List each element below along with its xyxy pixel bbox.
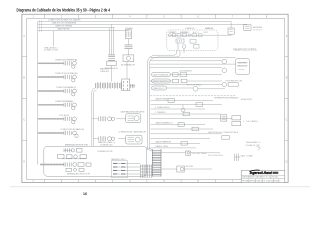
svg-text:CABLE ROJO DE BATERIA: CABLE ROJO DE BATERIA [52, 22, 77, 25]
svg-text:VALV. COMB.: VALV. COMB. [241, 154, 254, 157]
svg-text:CONECTOR LUZ TRAS. (B): CONECTOR LUZ TRAS. (B) [55, 72, 78, 75]
svg-text:TABLERO DE C.: TABLERO DE C. [111, 158, 127, 161]
svg-text:CABLE NARANJA: CABLE NARANJA [153, 74, 170, 77]
svg-text:CABLE ROJO: CABLE ROJO [153, 87, 165, 90]
svg-text:CONECTOR LUZ FRENO (A): CONECTOR LUZ FRENO (A) [55, 58, 77, 61]
svg-text:C: C [286, 119, 288, 122]
svg-text:ZONA B6 (15): ZONA B6 (15) [100, 143, 113, 146]
svg-text:FUSIBLE: FUSIBLE [125, 28, 134, 30]
svg-text:FECHA: FECHA [242, 180, 249, 183]
svg-text:VALVULA DE COMBUSTIBLE: VALVULA DE COMBUSTIBLE [208, 131, 239, 134]
svg-text:D: D [286, 161, 288, 164]
svg-text:L. DE PANEL: L. DE PANEL [243, 120, 259, 123]
svg-text:CABLES: CABLES [100, 70, 110, 73]
svg-text:CONECTOR DEL MAZO (E): CONECTOR DEL MAZO (E) [60, 128, 84, 131]
svg-text:LUZ DE TEMP.: LUZ DE TEMP. [192, 153, 208, 155]
svg-text:MEDIDOR: MEDIDOR [237, 66, 248, 68]
svg-text:ZONA C3 (18): ZONA C3 (18) [246, 144, 260, 147]
svg-text:DIAGRAMA DE CABLEADO 35 / 50: DIAGRAMA DE CABLEADO 35 / 50 [242, 176, 271, 179]
svg-text:Diagrama de Cableado de los Mo: Diagrama de Cableado de los Modelos 35 y… [17, 7, 111, 12]
svg-text:TABLERO (PAG. 1): TABLERO (PAG. 1) [98, 141, 116, 144]
svg-text:N. 35367224: N. 35367224 [264, 181, 274, 183]
svg-text:ARRANQUE: ARRANQUE [105, 67, 119, 70]
svg-text:HOJA 2: HOJA 2 [272, 176, 278, 179]
svg-text:CABLE MARRON: CABLE MARRON [155, 141, 171, 144]
svg-text:C: C [23, 119, 25, 122]
svg-text:CONTACTO: CONTACTO [169, 31, 177, 34]
svg-text:ARRANCADOR MOTOR: ARRANCADOR MOTOR [67, 172, 90, 175]
svg-text:DE ACEITE: DE ACEITE [241, 98, 253, 101]
svg-text:CONECTOR TIERRA (D): CONECTOR TIERRA (D) [55, 100, 73, 103]
svg-text:CONECTOR DEL MAZO DE CABLES: CONECTOR DEL MAZO DE CABLES [48, 19, 81, 22]
svg-text:INTERRUPTOR: INTERRUPTOR [226, 80, 243, 82]
svg-text:CABLE DE TIERRA: CABLE DE TIERRA [55, 25, 73, 28]
svg-text:CONEXION DEL CALENTADOR: CONEXION DEL CALENTADOR [118, 131, 146, 134]
svg-text:APROB: APROB [249, 180, 256, 183]
svg-text:12 VOLT: 12 VOLT [253, 29, 263, 31]
svg-text:L. TERMICO: L. TERMICO [155, 112, 166, 114]
svg-text:CONECTOR SENAL (C): CONECTOR SENAL (C) [56, 86, 77, 89]
svg-text:ZONA C8 (16): ZONA C8 (16) [44, 49, 58, 52]
svg-text:HOROMETRO: HOROMETRO [237, 63, 248, 65]
svg-text:D: D [23, 161, 25, 164]
svg-text:ARRANQUE: ARRANQUE [205, 27, 214, 30]
svg-text:2: 2 [279, 181, 280, 183]
svg-text:TABLERO DE CONTROL: TABLERO DE CONTROL [233, 48, 258, 51]
svg-text:INTERRUPTOR: INTERRUPTOR [98, 151, 113, 153]
svg-text:ACC: ACC [193, 31, 199, 34]
svg-text:LLAVE DE: LLAVE DE [185, 27, 195, 30]
svg-text:ARRANCADOR DEL MOTOR: ARRANCADOR DEL MOTOR [65, 143, 88, 146]
svg-text:CABLE NEGRO: CABLE NEGRO [57, 28, 70, 31]
svg-text:CALENTADOR DEL MULTIPLE: CALENTADOR DEL MULTIPLE [120, 111, 145, 114]
svg-text:LUZ DE AVISO: LUZ DE AVISO [179, 69, 192, 72]
svg-text:INTERRUPTOR DE PRESION: INTERRUPTOR DE PRESION [214, 97, 238, 99]
svg-text:MOTOR PASO: MOTOR PASO [187, 84, 202, 87]
svg-text:ALTERNADOR: ALTERNADOR [121, 64, 135, 67]
svg-text:CABLE AMARILLO: CABLE AMARILLO [155, 122, 173, 125]
svg-text:OFF: OFF [203, 32, 209, 34]
svg-text:Ingersoll-Rand: Ingersoll-Rand [250, 170, 272, 175]
svg-text:CABLE BLANCO: CABLE BLANCO [153, 80, 169, 83]
svg-text:LUZ ALTA: LUZ ALTA [59, 114, 70, 117]
svg-text:SOLENOIDE: SOLENOIDE [208, 155, 224, 157]
svg-text:ENCENDIDO: ENCENDIDO [180, 32, 189, 34]
svg-text:4 CABLE AZUL: 4 CABLE AZUL [155, 106, 171, 109]
svg-text:CABLE VERDE: CABLE VERDE [155, 98, 169, 101]
svg-text:DIBUJO: DIBUJO [257, 181, 264, 183]
svg-text:BATERIA: BATERIA [253, 26, 263, 29]
svg-text:MOTOR: MOTOR [186, 166, 194, 168]
svg-text:CABLE GRIS: CABLE GRIS [155, 145, 169, 148]
svg-text:VEA LA PAG. 3: VEA LA PAG. 3 [246, 141, 261, 144]
